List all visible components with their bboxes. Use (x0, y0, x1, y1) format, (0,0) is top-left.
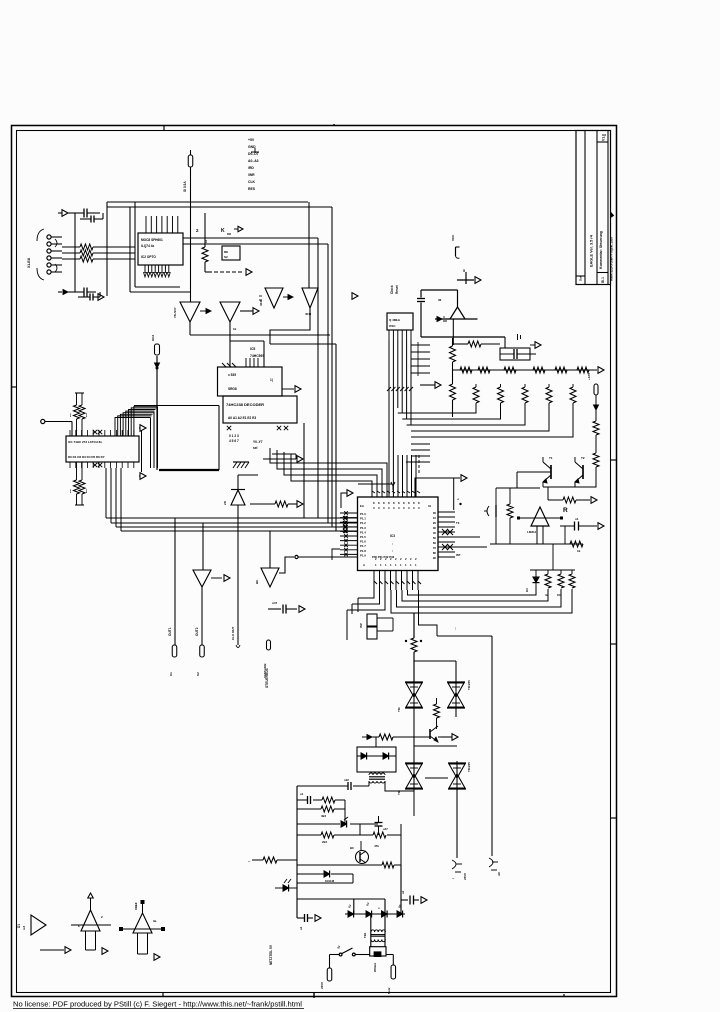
resistor R27 marks (248, 859, 251, 864)
buffer U5B triangle (220, 302, 240, 322)
svg-text:36: 36 (438, 298, 442, 302)
svg-text:CLK OUT: CLK OUT (231, 627, 235, 640)
diode D11 (383, 753, 389, 760)
TVS D9 wire (435, 317, 478, 322)
wire x437 bend (419, 590, 438, 636)
arrow input top (58, 210, 68, 217)
border zone tick right 1 (611, 459, 617, 461)
svg-text:4049: 4049 (305, 312, 312, 316)
resistor RN6 (577, 367, 589, 373)
psu left rail (296, 786, 298, 918)
capacitor C8 (268, 605, 297, 614)
transformer TR5 left leg (368, 781, 370, 786)
psu row y824 (297, 823, 378, 825)
MCU U1 body (358, 497, 439, 571)
relay dashed wire (214, 271, 244, 273)
R label (563, 507, 568, 514)
diode D8 (533, 570, 540, 595)
LED D14 (275, 879, 297, 892)
title block divider line 2 (596, 131, 598, 285)
psu row y809 (297, 808, 345, 810)
resistor RN1 (460, 367, 472, 373)
svg-text:...: ... (453, 627, 457, 630)
ladder bus lines (398, 403, 573, 437)
resistor R2 (62, 250, 135, 256)
transformer TR5 right leg (385, 781, 414, 816)
svg-text:Reset: Reset (395, 284, 399, 294)
mcu left bus y518 (106, 468, 358, 518)
svg-text:P1.2: P1.2 (360, 521, 366, 525)
svg-text:80: 80 (433, 551, 437, 555)
zener D6 out wire (201, 587, 203, 645)
svg-text:T1: T1 (549, 456, 553, 460)
arrow IC U7 out 2 (139, 473, 146, 480)
terminal box inner (374, 952, 381, 957)
resistor RN3 (504, 367, 516, 373)
MCU right pin ext 2 (455, 546, 487, 548)
fuse F1 flag (188, 150, 193, 167)
connector pin circle (41, 419, 72, 436)
page border outer frame (12, 126, 617, 997)
mains flag N label (387, 987, 391, 994)
resistor RV2 (558, 570, 564, 588)
svg-text:TR1: TR1 (363, 932, 367, 938)
capacitor C16 label (438, 298, 442, 302)
svg-text:sel: sel (253, 446, 258, 450)
resistor R22 (322, 797, 335, 803)
capacitor C4 (78, 294, 100, 301)
resistor RV labels (545, 593, 562, 597)
svg-text:74LS07: 74LS07 (173, 307, 177, 318)
svg-text:50: 50 (433, 536, 437, 540)
svg-text:1N4148: 1N4148 (325, 879, 335, 883)
svg-text:Dat.: Dat. (579, 275, 583, 281)
header J2 flags (367, 614, 377, 639)
opamp C input wire (119, 927, 165, 931)
capacitor C7 (500, 349, 536, 359)
opamp C triangle (133, 913, 152, 933)
wire loop bottom 2 (130, 291, 190, 293)
comparator A top mark (78, 924, 80, 928)
connector J1 bracket top (37, 229, 44, 241)
wire loop right (491, 636, 493, 856)
capacitor C3 (84, 288, 96, 297)
transistor Q8 label (350, 846, 354, 850)
oscillator X1 pins (389, 330, 411, 340)
IC U2 label row 3 (141, 255, 156, 259)
transistor Q8 (356, 841, 369, 864)
psu mid rail x360 (359, 824, 361, 835)
svg-text:n22: n22 (344, 778, 349, 782)
wire buffer4 out (270, 308, 310, 344)
latch U4 top pins (246, 358, 258, 367)
connector J1 bracket bottom (37, 268, 44, 280)
wire box to triac (396, 759, 414, 761)
svg-text:X1-BU: X1-BU (27, 257, 31, 268)
fuse F1 label (183, 181, 187, 192)
hline above decoder 1 (190, 334, 330, 336)
clock reset label (390, 284, 399, 294)
arrow IC U7 out 1 (139, 425, 146, 432)
diode D8 label (525, 588, 529, 592)
svg-text:OUT1: OUT1 (168, 627, 172, 636)
opamp B stem (86, 931, 96, 950)
buffer U6B triangle (302, 288, 318, 308)
header J2 wires (377, 618, 393, 631)
svg-text:00: 00 (433, 511, 437, 515)
svg-text:EA: EA (360, 504, 364, 508)
opamp U8 triangle (531, 507, 549, 526)
arrow rc out (530, 342, 541, 349)
svg-text:]: ] (86, 413, 87, 417)
net label symbol (251, 148, 259, 152)
wire vertical cap join (100, 213, 103, 297)
MCU bottom pin ticks (374, 581, 421, 584)
svg-text:+5V: +5V (248, 138, 255, 142)
bridge wire (345, 913, 405, 915)
decoder out wire (263, 454, 296, 459)
svg-text:D0..D7: D0..D7 (248, 152, 259, 156)
opamp U8 input wire (517, 517, 563, 520)
earth symbol A label (463, 873, 467, 880)
resistor RV1 (545, 570, 551, 588)
resistor R20 (434, 698, 440, 729)
svg-text:LM311: LM311 (527, 530, 537, 534)
svg-text:Clock: Clock (390, 285, 394, 294)
wire fuse down (190, 167, 192, 302)
border zone tick bottom 2 (313, 993, 315, 998)
svg-text:UREF: UREF (134, 902, 138, 910)
svg-text:No license: PDF produced by PS: No license: PDF produced by PStill (c) F… (13, 1000, 302, 1009)
IC U7 body (66, 436, 139, 462)
IC U2 top pins (146, 216, 178, 233)
MCU U1 top pin text (373, 501, 420, 510)
IC U7 bottom pins (70, 462, 134, 468)
bus wire top B (107, 206, 332, 208)
mcu left bus y527 (116, 468, 358, 527)
arrow opamp B out (96, 948, 109, 955)
psu row y874 (297, 873, 353, 875)
bridge diode D4 (397, 911, 403, 918)
MCU bottom left bends (347, 590, 385, 610)
MCU top pins straight (389, 455, 416, 497)
relay value label (204, 239, 208, 243)
decoder label rows (250, 347, 264, 358)
svg-text:250mA: 250mA (373, 963, 377, 972)
MCU right pin ext 1 (455, 536, 480, 538)
wire T4 down (456, 789, 458, 858)
psu row y883 (297, 874, 353, 883)
pullup resistor chain wire (453, 369, 598, 371)
transistor Q1 (543, 457, 551, 487)
arrow link vertical (141, 431, 143, 472)
terminal box (370, 947, 386, 956)
svg-text:P1.9: P1.9 (360, 553, 366, 557)
svg-text:u47: u47 (383, 827, 388, 831)
vertical bus x304 (303, 423, 305, 518)
svg-text:1k: 1k (233, 327, 237, 331)
triac TR4 (448, 761, 466, 791)
svg-text::: : (392, 542, 393, 546)
q interconnect box (543, 470, 596, 487)
title block small mark (603, 134, 607, 136)
connector J1 inner bracket 1 (55, 239, 57, 247)
svg-text:P1.0: P1.0 (360, 512, 366, 516)
psu row y786 (297, 785, 369, 787)
MCU U1 bottom pin text (363, 557, 417, 567)
wire top rc (453, 343, 469, 345)
resistor R24 (321, 832, 334, 838)
signal flag B label (196, 672, 200, 676)
wire loop top (437, 635, 492, 637)
resistor R15 (593, 410, 599, 453)
opamp U8 label (527, 530, 537, 534)
net label column (248, 138, 259, 191)
vert x437 to 661 (436, 636, 438, 661)
svg-text:70: 70 (433, 546, 437, 550)
relay K arrow (234, 226, 243, 232)
svg-text:TIC: TIC (397, 789, 401, 795)
arrow ground bottom-left (98, 294, 104, 301)
hline y746 (414, 745, 457, 747)
psu row y800 (297, 799, 345, 801)
decoder U3 row2 (228, 416, 256, 420)
oscillator bus slash ticks (387, 387, 413, 391)
svg-text:74HC595: 74HC595 (250, 354, 264, 358)
capacitor C2 (80, 216, 103, 223)
transformer TR6 coils top (371, 930, 385, 932)
earth symbol A (452, 860, 462, 881)
psu row y865 (297, 864, 401, 866)
resistor R4 marks (70, 413, 87, 417)
label near arrow (456, 498, 462, 505)
capacitor C10 (560, 522, 597, 545)
svg-text:/RD: /RD (248, 166, 254, 170)
resistor R11 vertical (450, 370, 456, 417)
left bend verticals (347, 598, 358, 640)
transformer TR6 coils bottom (371, 940, 385, 942)
svg-text:3a: 3a (153, 919, 157, 923)
MCU top pin ticks (372, 491, 420, 493)
bridge diode D3 (378, 907, 387, 918)
MCU top right wire (415, 478, 460, 497)
svg-text:40: 40 (433, 531, 437, 535)
decoder hline y454 (272, 453, 296, 455)
MCU U1 left pin text (360, 512, 366, 557)
wire input top (68, 212, 84, 214)
svg-text:]: ] (86, 489, 87, 493)
title block name text (590, 234, 594, 267)
buffer U6A label (259, 296, 263, 306)
title block sheet text (601, 277, 605, 283)
relay IC body (222, 246, 240, 260)
ribbon bus IC U7 (115, 406, 158, 468)
opamp C stem (138, 933, 148, 954)
transistor base wires (517, 471, 596, 473)
MCU top pins staircase (270, 448, 387, 497)
MCU y tick (391, 482, 395, 490)
MCU U1 center label (390, 534, 395, 553)
title block divider line 3 (607, 131, 609, 285)
relay arrow out (246, 269, 252, 276)
capacitor C8 label (272, 601, 278, 605)
mcu left bus y531 (121, 468, 358, 531)
signal flag A (172, 645, 177, 657)
jumper JP1 bracket (456, 247, 460, 258)
comparator A label (17, 924, 26, 930)
latch U4 hatches (222, 363, 236, 367)
pullup resistor RP4 (546, 384, 552, 403)
svg-text:T0: T0 (456, 521, 460, 525)
MCU U1 right pin text (433, 511, 437, 560)
signal flag A label2 (169, 672, 173, 676)
zener D6 label (195, 627, 199, 636)
diode box wire (357, 755, 396, 757)
svg-text:T2: T2 (581, 456, 585, 460)
loop wire top right (421, 290, 458, 307)
IC U2 body (138, 233, 183, 265)
bridge diode D1 (348, 911, 354, 918)
mains flag N (391, 955, 396, 980)
arrow mcu top right (461, 475, 467, 482)
diode box outline (357, 747, 396, 772)
triac TR1 label (397, 706, 401, 712)
signal flag C (267, 640, 271, 650)
svg-text:0 1 2 3: 0 1 2 3 (229, 434, 239, 438)
capacitor C9 polarized (484, 488, 496, 544)
mcu left bus y523 (111, 468, 358, 523)
relay IC text (224, 250, 228, 259)
svg-text:+12V: +12V (587, 373, 591, 380)
buffer U5A triangle (180, 302, 200, 322)
triac TR1 (405, 680, 423, 710)
wire T1 down (413, 710, 415, 762)
psu mid rail x345 (344, 800, 346, 824)
IC U2 bottom pins (144, 265, 171, 277)
triac TR2 (447, 680, 465, 710)
psu right rail x401 (400, 824, 402, 865)
tick on y337 (518, 334, 521, 340)
title block divider line 1 (584, 131, 586, 285)
long vertical bus x328 (327, 244, 329, 523)
capacitor C13 label (383, 827, 388, 831)
svg-text:Y0..Y7: Y0..Y7 (253, 440, 263, 444)
svg-text:1k: 1k (204, 239, 208, 243)
signal flag B (200, 645, 205, 657)
tee node label (463, 269, 465, 273)
arrow isolated mid (352, 293, 358, 300)
bus tick marks left (343, 516, 347, 533)
svg-text:10: 10 (433, 516, 437, 520)
svg-text:P1.3: P1.3 (360, 526, 366, 530)
pullup resistor RP5 (570, 384, 576, 403)
decoder U3 body (223, 396, 297, 423)
decoder top wires (229, 335, 231, 367)
wire y488 (496, 472, 540, 488)
buffer U6B label (305, 312, 312, 316)
transformer TR6 sides (371, 929, 385, 947)
wire drop to buffer U6B (308, 202, 310, 288)
zener D5 (231, 475, 245, 505)
transformer TR6 label (363, 932, 367, 938)
transformer TR5 (369, 773, 385, 783)
border zone tick left (12, 386, 17, 388)
resistor RN4 (533, 367, 545, 373)
decoder U3 title (226, 402, 264, 407)
svg-text:P1.8: P1.8 (360, 549, 366, 553)
svg-text:IC1 74HC 273 LATCH 8x: IC1 74HC 273 LATCH 8x (68, 440, 102, 444)
MCU top left hline (358, 483, 392, 485)
capacitor C15 label (401, 890, 405, 894)
svg-text:2k2: 2k2 (322, 840, 327, 844)
svg-text:P1.4: P1.4 (360, 530, 366, 534)
power flag x157 (155, 344, 160, 355)
svg-text:/WR: /WR (248, 173, 255, 177)
flag right column (594, 384, 598, 395)
svg-text:3k3: 3k3 (321, 814, 326, 818)
border zone tick right 3 (611, 817, 617, 819)
diode D13 label (325, 879, 335, 883)
svg-text:IC2 OPTO: IC2 OPTO (141, 255, 156, 259)
title block outline (576, 131, 611, 285)
hline y544 (490, 543, 583, 545)
diode D10 (361, 753, 367, 760)
svg-text:RES: RES (248, 187, 256, 191)
resistor R17 (548, 487, 590, 503)
arrow C15 out (421, 897, 427, 904)
opamp C top stub (141, 900, 145, 913)
triac TR4 label (467, 762, 471, 772)
MCU bottom pins (374, 571, 418, 591)
switch S1 label (336, 944, 341, 949)
wire IC right 2 (183, 243, 328, 245)
arrow decoder out (297, 456, 303, 463)
bridge vertical b (384, 899, 386, 914)
buffer U5A out wire (189, 322, 191, 335)
IC U7 xx mark top (93, 430, 102, 434)
svg-text:P30 P31 P32 P33: P30 P31 P32 P33 (372, 555, 395, 559)
border zone tick bottom 3 (563, 994, 565, 997)
arrow R17 out (591, 497, 597, 504)
arrow between buffers 2 (253, 308, 259, 315)
svg-text:RE: RE (224, 250, 228, 254)
connector J1 pin circles (47, 235, 62, 274)
svg-text:D0 D1 D2 D3 D4 D5 D6 D7: D0 D1 D2 D3 D4 D5 D6 D7 (68, 455, 105, 459)
MCU U1 bottom label (372, 555, 395, 559)
power flag x157 arrow (155, 363, 160, 368)
resistor R13 (275, 501, 288, 507)
drop wire x270 (269, 531, 271, 568)
svg-text:A0..A3: A0..A3 (248, 159, 259, 163)
arrow input bottom (63, 290, 68, 295)
bus right stubs lower (411, 444, 430, 456)
capacitor C16 inline (417, 290, 425, 337)
svg-text:NETZTEIL 5V: NETZTEIL 5V (269, 944, 273, 965)
relay K label (221, 228, 231, 234)
svg-text:TIC225: TIC225 (467, 680, 471, 690)
buffer U5B label (233, 327, 237, 331)
TVS D9 lead down (452, 319, 454, 345)
svg-text:BC: BC (350, 846, 354, 850)
arrow opamp C out (113, 929, 160, 960)
triac TR2 label (467, 680, 471, 690)
transistor Q2 (575, 457, 583, 487)
IC U7 xx mark bottom (93, 463, 102, 467)
decoder x mark right (277, 426, 288, 430)
svg-text:u1: u1 (401, 890, 405, 894)
resistor R3 (62, 256, 135, 262)
relay resistor R6 (202, 247, 208, 262)
